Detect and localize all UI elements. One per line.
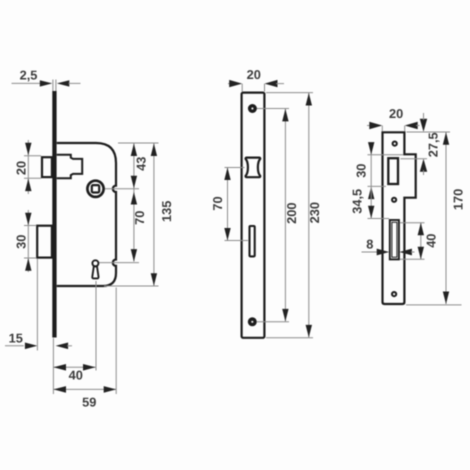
extension lines 20 mid	[242, 84, 264, 92]
extension deadbolt cutout top left	[368, 218, 390, 220]
dimension 2,5 arrow left	[40, 80, 53, 86]
lock body outline	[57, 143, 116, 286]
svg-text:15: 15	[9, 331, 23, 346]
dim 70 arrow up	[131, 192, 137, 205]
dimension 20 arrow bottom	[25, 179, 31, 192]
dim 20 right line right	[416, 125, 420, 127]
deadbolt cutout inner (right view)	[392, 222, 397, 257]
dim 20 mid arrow right	[265, 80, 278, 87]
latch bolt rear profile	[57, 155, 82, 179]
dimension 2,5 arrow right	[57, 80, 70, 86]
extension lines deadbolt	[24, 226, 37, 259]
deadbolt front block	[37, 226, 52, 258]
dim 200 arrow down	[282, 309, 288, 322]
dim 135 arrow down	[151, 273, 157, 286]
svg-text:30: 30	[354, 164, 369, 178]
screw hole bottom (right view)	[392, 292, 396, 296]
screw hole top	[248, 104, 257, 113]
extension lines latch	[24, 156, 41, 179]
latch bolt front block	[42, 157, 52, 177]
svg-text:230: 230	[307, 202, 322, 223]
extension line top edge	[118, 142, 159, 144]
svg-text:30: 30	[14, 235, 29, 249]
dimension 34,5 line	[370, 186, 372, 218]
dimension 20 arrow top	[25, 143, 31, 156]
svg-text:70: 70	[132, 211, 147, 225]
dim 170 arrow up	[443, 132, 449, 145]
svg-text:20: 20	[389, 106, 403, 121]
dimension 20 (latch) line	[27, 140, 29, 194]
dim 8 line right	[411, 251, 415, 253]
extension latch cutout top right	[401, 158, 428, 160]
extension lines 20 right	[382, 126, 404, 132]
dim 27,5 arrow top	[420, 119, 427, 132]
deadbolt slot	[250, 226, 255, 256]
dim 8 line left	[362, 251, 378, 253]
dim 230 arrow down	[306, 325, 312, 338]
dimension 200 line	[284, 109, 286, 322]
dim 8 arrow left	[377, 249, 390, 256]
deadbolt cutout outer (right view)	[390, 220, 399, 259]
dimension 30 arrow bottom	[25, 258, 31, 271]
dim 43 arrow up	[131, 144, 137, 157]
extension latch cutout bottom left	[368, 185, 387, 187]
dim 70 mid arrow up	[224, 168, 230, 181]
dim 27,5 arrow bottom	[420, 159, 427, 172]
leader screw bottom to 200	[257, 321, 289, 323]
latch cutout (right view)	[388, 158, 398, 184]
dim 230 arrow up	[306, 93, 312, 106]
svg-text:34,5: 34,5	[350, 189, 365, 214]
svg-text:43: 43	[134, 157, 149, 171]
dimension 30 right line	[370, 144, 372, 186]
dim 27,5 line bottom	[423, 170, 425, 175]
dim 135 arrow up	[151, 144, 157, 157]
dim 34,5 arrow down	[368, 206, 374, 219]
dim 70 arrow down	[131, 249, 137, 262]
svg-text:200: 200	[284, 203, 299, 224]
screw hole middle (right view)	[392, 198, 396, 202]
extension faceplate down	[52, 338, 54, 394]
extension latch center mid	[225, 167, 245, 169]
dim 59 arrow right	[104, 386, 117, 393]
extension deadbolt center mid	[225, 240, 249, 242]
dimension 20 (mid) line left	[228, 83, 230, 85]
dim 40 right arrow up	[418, 223, 424, 236]
dim 8 arrow right	[399, 249, 412, 256]
dim 40 arrow left	[54, 364, 67, 371]
keyhole leader line	[100, 262, 140, 264]
dim 20 mid line right	[276, 83, 284, 85]
dim 40 arrow right	[83, 364, 96, 371]
svg-text:27,5: 27,5	[426, 132, 441, 157]
dim 20 right arrow right	[405, 122, 418, 129]
dimension 230 line	[308, 93, 310, 337]
svg-text:59: 59	[82, 395, 96, 410]
dimension 40 right line	[420, 223, 422, 260]
extension deadbolt face down	[36, 259, 38, 351]
dimension 15 line	[5, 345, 24, 347]
screw hole top (right view)	[393, 142, 397, 146]
svg-text:2,5: 2,5	[20, 68, 38, 83]
svg-text:70: 70	[210, 196, 225, 210]
dim 170 arrow down	[443, 292, 449, 305]
latch cutout	[246, 158, 261, 178]
extension plate bottom right view	[406, 304, 462, 306]
extension deadbolt cutout top right	[400, 222, 425, 224]
extension plate top to right	[407, 131, 451, 133]
faceplate (side view, solid bar)	[52, 91, 56, 338]
dim 20 right arrow left	[369, 122, 382, 129]
dimension 30 (deadbolt) line	[27, 210, 29, 272]
follower (square spindle hole)	[87, 181, 103, 197]
extension plate bottom right	[266, 337, 313, 339]
dimension 135 line	[153, 144, 155, 286]
leader screw top to 200	[257, 108, 289, 110]
dimension 30 arrow top	[25, 213, 31, 226]
dim 200 arrow up	[282, 109, 288, 122]
screw hole bottom	[248, 317, 257, 326]
extension plate top right	[266, 92, 313, 94]
dimension 59 line	[54, 388, 117, 390]
extension body right down	[115, 288, 117, 395]
dim 40 right arrow down	[418, 247, 424, 260]
dimension 170 line	[445, 132, 447, 304]
strike plate outline	[383, 132, 416, 304]
follower square	[92, 185, 99, 192]
dimension 43/70 line	[133, 144, 135, 262]
dim 43 arrow down	[131, 176, 137, 189]
dimension 70 mid line	[227, 168, 229, 241]
follower leader line	[105, 188, 139, 190]
dim 30/34,5 shared arrow up	[368, 187, 374, 200]
dim 27,5 line top	[423, 113, 425, 120]
dim 20 mid arrow left	[229, 80, 242, 87]
dim 15 arrow left	[25, 342, 38, 349]
dim 15 line right	[67, 345, 72, 347]
svg-text:20: 20	[14, 161, 29, 175]
keyhole	[92, 260, 98, 266]
dim 15 arrow right	[56, 342, 69, 349]
dimension 2,5 line left	[12, 82, 41, 84]
extension keyhole axis down	[95, 281, 97, 371]
extension deadbolt cutout bottom right	[400, 258, 425, 260]
dimension 40 line	[54, 366, 96, 368]
extension step line left	[368, 154, 404, 156]
dimension 2,5 line right	[69, 82, 81, 84]
dim 59 arrow left	[54, 386, 67, 393]
svg-text:40: 40	[424, 234, 439, 248]
dim 30 right arrow top	[368, 142, 374, 155]
dim 70 mid arrow down	[224, 228, 230, 241]
dimension 20 right line left	[367, 125, 371, 127]
svg-text:8: 8	[366, 237, 373, 252]
svg-text:40: 40	[69, 368, 83, 383]
svg-text:20: 20	[247, 67, 261, 82]
faceplate front outline	[242, 93, 265, 338]
svg-text:135: 135	[159, 201, 174, 222]
faceplate edge extension lines above	[53, 80, 56, 92]
svg-text:170: 170	[451, 189, 466, 210]
extension line bottom edge	[104, 285, 159, 287]
